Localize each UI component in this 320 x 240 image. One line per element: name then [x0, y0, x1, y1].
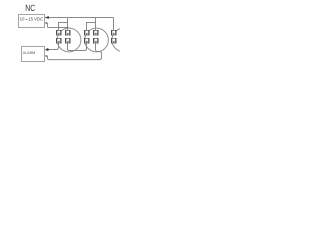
svg-text:10 - 15 VDC: 10 - 15 VDC [20, 17, 44, 22]
connector J2 pin 2 [93, 30, 99, 36]
connector J2 pin 1 [84, 30, 90, 36]
arrowhead into power box [45, 16, 49, 19]
junction dot [46, 48, 49, 51]
connector J1 pin 3 [56, 38, 62, 44]
connector J3 pin 3 [111, 38, 117, 44]
connector J2 pin 3 [84, 38, 90, 44]
connector J1 pin 2 [65, 30, 71, 36]
svg-text:ALARM: ALARM [23, 51, 35, 55]
svg-text:NC: NC [25, 3, 35, 13]
wire alarm return loop to J2 pin4 [45, 43, 102, 60]
connector J1 pin 1 [56, 30, 62, 36]
wire bracket J2 pin1 [87, 23, 96, 31]
connector J1 body [57, 28, 81, 52]
arrowhead into alarm box lower [45, 55, 47, 57]
connector J2 body [85, 28, 109, 52]
arrowhead power second output [45, 22, 47, 24]
alarm box [22, 47, 45, 62]
wire power bus [45, 17, 114, 19]
wire drop bus to J1 pin2 [67, 18, 69, 31]
connector J2 pin 4 [93, 38, 99, 44]
wire drop bus to J2 pin2 [95, 18, 97, 31]
wire bracket J1 pin1 [59, 23, 68, 31]
connector J3 pin 1 [111, 30, 117, 36]
wire alarm to J1 pin3 [45, 43, 59, 50]
junction J1 pin2 feed [67, 27, 69, 29]
power supply box [19, 15, 45, 28]
connector J1 pin 4 [65, 38, 71, 44]
wire power second output to J1 pin2 vertical [45, 23, 68, 28]
wire J1 pin4 to J2 pin3 [68, 43, 87, 51]
wire drop bus to J3 pin1 [113, 18, 115, 31]
connector J3 body (partial at right edge) [112, 28, 136, 52]
